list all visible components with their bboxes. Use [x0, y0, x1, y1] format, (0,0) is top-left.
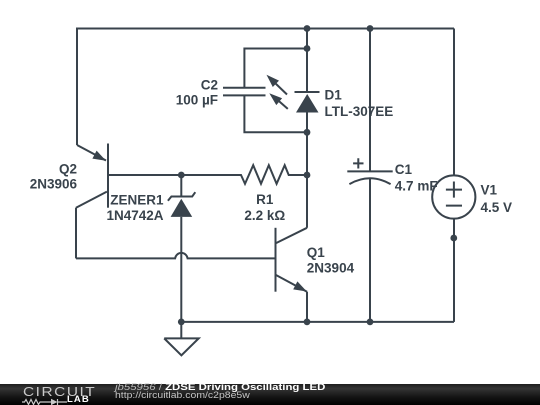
node dot bottom rail at C1: [367, 319, 374, 326]
svg-text:C2: C2: [201, 77, 218, 92]
CircuitLab logo: [22, 384, 94, 405]
node dot ground junction: [178, 319, 185, 326]
led D1 cathode bar: [295, 91, 320, 93]
led D1 light arrow 1 shaft: [274, 82, 287, 95]
svg-text:D1: D1: [325, 88, 343, 103]
svg-text:4.7 mF: 4.7 mF: [395, 178, 438, 193]
svg-text:C1: C1: [395, 162, 413, 177]
svg-text:Q1: Q1: [307, 245, 326, 260]
node dot C2 loop top: [304, 45, 311, 52]
led D1 light arrow 2 shaft: [277, 99, 288, 109]
wire zener column bottom: [180, 217, 182, 322]
svg-text:100 µF: 100 µF: [176, 92, 218, 107]
wire bottom rail: [181, 321, 454, 323]
transistor Q1 emitter arrowhead: [293, 281, 307, 291]
transistor Q1 base bar: [275, 228, 277, 292]
node dot top rail at LED column: [304, 25, 311, 32]
svg-text:2N3904: 2N3904: [307, 260, 355, 275]
wire Q1 collector vertical: [306, 132, 308, 228]
voltage source V1 minus: [446, 205, 462, 207]
wire Q2 collector to Q1 base with hop: [76, 253, 276, 259]
node dot zener top: [178, 172, 185, 179]
capacitor C1 curved plate: [349, 178, 390, 184]
svg-text:2.2 kΩ: 2.2 kΩ: [244, 208, 285, 223]
node dot C2 loop bottom: [304, 129, 311, 136]
zener diode ZENER1 triangle: [171, 199, 193, 217]
svg-text:Q2: Q2: [59, 162, 77, 177]
svg-text:ZENER1: ZENER1: [110, 192, 164, 207]
resistor R1 with leads: [108, 165, 307, 184]
led D1 arrow 2 head: [269, 93, 282, 105]
capacitor C1 top plate: [347, 170, 392, 172]
led D1 triangle: [296, 94, 319, 113]
wire C1 column top: [369, 29, 371, 172]
footer text: [114, 383, 116, 385]
capacitor C2 plates: [223, 88, 266, 96]
wire zener column top: [180, 175, 182, 197]
transistor Q1 collector diagonal: [276, 228, 308, 244]
node dot V1 bottom: [450, 235, 457, 242]
transistor Q2 base bar: [107, 144, 109, 208]
capacitor C1 plus sign: [353, 158, 363, 168]
wire C2 loop bottom: [244, 95, 307, 132]
node dot R1 right: [304, 172, 311, 179]
svg-text:1N4742A: 1N4742A: [106, 208, 163, 223]
voltage source V1 circle: [432, 175, 475, 218]
svg-text:V1: V1: [481, 183, 498, 198]
svg-text:LTL-307EE: LTL-307EE: [325, 104, 394, 119]
wire top rail and left drop: [77, 29, 454, 146]
svg-text:R1: R1: [256, 192, 274, 207]
wire V1 top vertical: [453, 29, 455, 176]
ground symbol: [164, 322, 199, 355]
zener diode ZENER1 cathode bar: [168, 192, 195, 201]
voltage source V1 plus: [446, 182, 462, 198]
wire Q1 emitter vertical: [306, 292, 308, 322]
wire C1 column bottom: [369, 179, 371, 322]
node dot top rail at C1 column: [367, 25, 374, 32]
transistor Q2 emitter diagonal: [77, 145, 106, 161]
wire LED column bottom: [306, 113, 308, 133]
svg-text:4.5 V: 4.5 V: [481, 200, 513, 215]
led D1 arrow 1 head: [267, 75, 280, 87]
node dot bottom rail at Q1: [304, 319, 311, 326]
transistor Q2 emitter arrowhead: [92, 151, 106, 161]
svg-text:2N3906: 2N3906: [30, 176, 78, 191]
footer bar: [0, 384, 540, 405]
transistor Q2 collector diagonal: [76, 192, 107, 208]
wire LED column top: [306, 29, 308, 93]
wire C2 loop top: [244, 49, 307, 88]
transistor Q1 emitter diagonal: [276, 275, 308, 292]
wire Q2 collector vertical: [75, 208, 77, 259]
wire V1 bottom vertical: [453, 219, 455, 322]
